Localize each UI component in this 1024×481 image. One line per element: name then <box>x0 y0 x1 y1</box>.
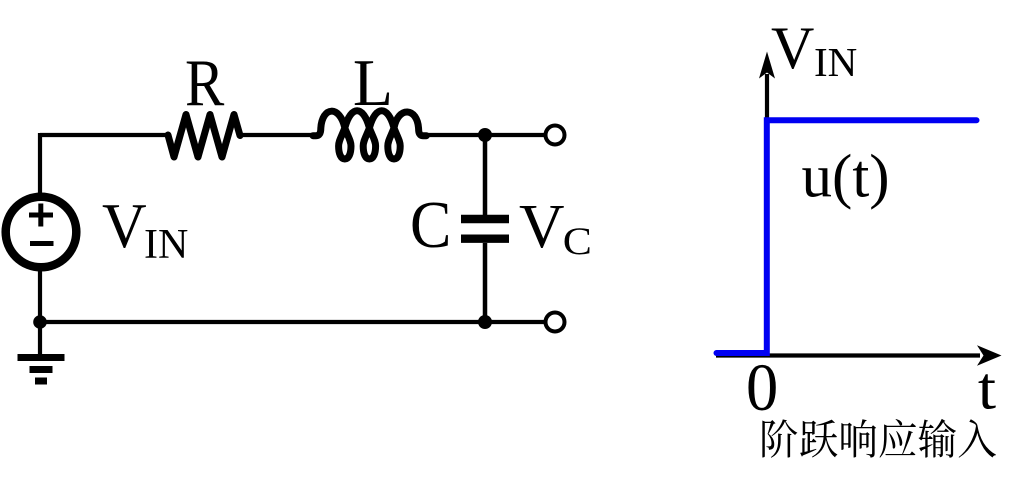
wire: inductor to output terminal <box>426 133 545 137</box>
wire: source bottom to ground node <box>38 270 42 354</box>
label char 跃 <box>800 420 837 458</box>
node junction dot top of capacitor <box>478 128 492 142</box>
plus sign <box>29 204 53 227</box>
node junction dot bottom left <box>33 315 47 329</box>
graph horizontal axis <box>716 353 980 357</box>
svg-text:V: V <box>519 191 565 261</box>
svg-text:L: L <box>353 46 393 120</box>
svg-text:C: C <box>563 219 592 262</box>
svg-text:IN: IN <box>814 39 857 85</box>
arrowhead vertical axis <box>759 52 775 79</box>
caption 阶跃响应输入 <box>762 419 996 458</box>
wire left: top corner down to source <box>38 133 42 194</box>
node junction dot bottom of capacitor <box>478 315 492 329</box>
label char 输 <box>918 419 955 458</box>
label char 响 <box>841 419 876 457</box>
svg-text:0: 0 <box>746 350 778 425</box>
label char 阶 <box>762 419 797 457</box>
label char 入 <box>959 419 996 457</box>
svg-text:C: C <box>410 188 451 262</box>
svg-text:V: V <box>102 191 147 261</box>
minus sign <box>30 241 54 246</box>
terminal top output <box>546 126 565 145</box>
arrowhead horizontal axis <box>977 345 1002 366</box>
resistor R1 zigzag <box>168 115 240 158</box>
svg-text:t: t <box>978 355 997 422</box>
wire: resistor to inductor <box>240 133 316 137</box>
blue step input u(t) <box>717 120 977 353</box>
wire top: source to resistor <box>40 133 168 137</box>
capacitor C1 plates <box>461 219 509 239</box>
wire: capacitor bottom lead <box>483 243 488 322</box>
graph vertical axis <box>765 74 769 355</box>
svg-text:R: R <box>185 46 224 120</box>
voltage source V1 circle <box>6 197 77 268</box>
wire bottom rail <box>40 320 545 324</box>
terminal bottom output <box>546 313 565 332</box>
ground symbol <box>18 358 65 382</box>
label char 应 <box>880 419 917 458</box>
svg-text:IN: IN <box>144 222 188 268</box>
svg-text:u(t): u(t) <box>802 143 890 210</box>
svg-text:V: V <box>771 15 814 81</box>
inductor L1 coil <box>313 111 426 159</box>
wire: capacitor top lead <box>483 135 488 215</box>
